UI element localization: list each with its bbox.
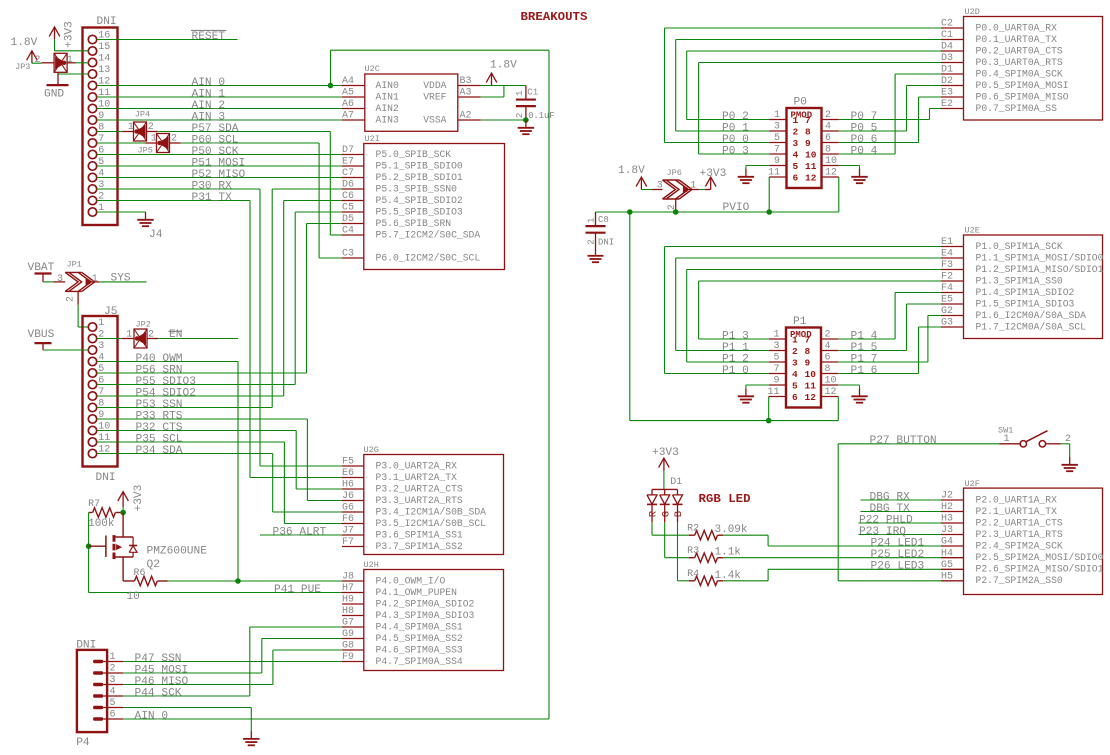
svg-text:P2.0_UART1A_RX: P2.0_UART1A_RX — [976, 494, 1058, 505]
svg-text:P46_MISO: P46_MISO — [135, 676, 189, 688]
svg-text:P25_LED2: P25_LED2 — [871, 549, 925, 561]
svg-text:P3.0_UART2A_RX: P3.0_UART2A_RX — [376, 460, 458, 471]
svg-text:AIN_3: AIN_3 — [192, 111, 226, 123]
net label P26_LED3 — [871, 561, 925, 573]
svg-text:D6: D6 — [342, 180, 354, 191]
wire P32_CTS — [97, 431, 342, 490]
svg-text:P0.1_UART0A_TX: P0.1_UART0A_TX — [976, 34, 1058, 45]
wire P0.12 to PVIO — [838, 177, 840, 212]
jumper JP5 — [138, 134, 181, 156]
wire +3V3 to J4.15 — [55, 39, 89, 50]
svg-text:2: 2 — [110, 664, 116, 675]
jumper JP3 — [15, 53, 75, 72]
svg-text:JP5: JP5 — [138, 145, 153, 155]
svg-text:DNI: DNI — [97, 16, 117, 28]
net label EN — [169, 329, 183, 341]
net label AIN_1 — [192, 88, 226, 100]
svg-text:1: 1 — [774, 110, 780, 121]
wire GND to J4.13 — [58, 73, 88, 75]
svg-text:P41_PUE: P41_PUE — [274, 584, 321, 596]
svg-text:JP2: JP2 — [136, 320, 151, 330]
svg-text:7: 7 — [805, 335, 811, 346]
svg-text:P36_ALRT: P36_ALRT — [273, 526, 327, 538]
svg-text:1: 1 — [586, 218, 596, 223]
svg-text:H7: H7 — [342, 583, 354, 594]
ground (P0.9) — [738, 169, 754, 183]
svg-text:P1.3_SPIM1A_SS0: P1.3_SPIM1A_SS0 — [976, 275, 1063, 286]
wire J4.1 to ground — [97, 211, 146, 213]
wire P33_RTS — [97, 419, 342, 501]
svg-text:P0.4_SPIM0A_SCK: P0.4_SPIM0A_SCK — [976, 68, 1063, 79]
wire P0.11 to PVIO — [768, 177, 770, 212]
svg-text:2: 2 — [148, 329, 154, 340]
wire P0_3 (U2D.D3 to P0.7) — [699, 63, 941, 155]
junction PVIO/JP6 — [673, 209, 679, 215]
svg-text:G2: G2 — [941, 306, 953, 317]
jumper JP2 — [122, 320, 158, 349]
wire P1_3 (U2E.F2 to P1.1) — [699, 281, 941, 339]
svg-text:P2.1_UART1A_TX: P2.1_UART1A_TX — [976, 506, 1058, 517]
net label P46_MISO — [135, 676, 189, 688]
svg-text:1: 1 — [515, 91, 525, 96]
svg-text:7: 7 — [773, 364, 779, 375]
net label DBG_TX — [870, 503, 911, 515]
svg-text:D4: D4 — [941, 42, 953, 53]
svg-text:P0_3: P0_3 — [722, 145, 749, 157]
wire P0_5 (U2D.D2 to P0.4) — [839, 86, 941, 132]
svg-text:P4.4_SPIM0A_SS1: P4.4_SPIM0A_SS1 — [376, 621, 463, 632]
svg-text:P53_SSN: P53_SSN — [136, 399, 183, 411]
wire AIN_1 — [97, 96, 342, 98]
jumper JP1 — [54, 260, 100, 305]
svg-text:3: 3 — [793, 138, 799, 149]
net label AIN_3 — [192, 111, 226, 123]
wire P30_RX to U2G.F5 — [97, 189, 342, 466]
ground (P4.5) — [243, 731, 259, 745]
connector J4 — [83, 16, 163, 241]
svg-text:10: 10 — [825, 376, 837, 387]
supply 1.8V (JP6) — [618, 165, 647, 190]
connector J5 — [83, 306, 118, 484]
wire PVIO down to P1 — [630, 212, 839, 421]
svg-text:P56_SRN: P56_SRN — [136, 364, 183, 376]
svg-text:3: 3 — [792, 358, 798, 369]
wire P0_7 (U2D.E2 to P0.2) — [839, 109, 941, 120]
svg-text:P0_1: P0_1 — [722, 122, 749, 134]
svg-text:VDDA: VDDA — [423, 80, 446, 91]
wire DBG_RX — [861, 499, 942, 501]
junction AIN_0 — [328, 83, 334, 89]
switch SW1 — [998, 425, 1071, 447]
wire D1.G to R3 — [665, 522, 689, 557]
net label P40_OWM — [136, 353, 183, 365]
svg-text:U2I: U2I — [365, 134, 380, 144]
svg-text:P4.5_SPIM0A_SS2: P4.5_SPIM0A_SS2 — [376, 633, 463, 644]
wire JP3.1 to J4.14 — [76, 62, 89, 64]
net label P31_TX — [192, 192, 233, 204]
svg-text:E5: E5 — [941, 295, 953, 306]
svg-text:A4: A4 — [342, 76, 354, 87]
resistor R6 10 — [123, 568, 167, 603]
svg-text:F4: F4 — [941, 283, 953, 294]
svg-text:9: 9 — [805, 358, 811, 369]
svg-text:P45_MOSI: P45_MOSI — [135, 664, 189, 676]
svg-text:P3.4_I2CM1A/S0B_SDA: P3.4_I2CM1A/S0B_SDA — [376, 506, 487, 517]
svg-text:4: 4 — [793, 150, 799, 161]
svg-text:P0_0: P0_0 — [722, 134, 749, 146]
wire P41_PUE left vertical — [89, 513, 342, 593]
net label P54_SDIO2 — [136, 387, 196, 399]
net label P44_SCK — [135, 687, 182, 699]
svg-text:P0_5: P0_5 — [851, 122, 878, 134]
wire P4.5 to ground — [123, 708, 251, 732]
wire P1_1 (U2E.E4 to P1.3) — [676, 258, 941, 351]
svg-text:P1_6: P1_6 — [851, 365, 878, 377]
svg-text:P2.5_SPIM2A_MOSI/SDIO0: P2.5_SPIM2A_MOSI/SDIO0 — [976, 552, 1104, 563]
svg-text:F6: F6 — [342, 514, 354, 525]
svg-text:VREF: VREF — [423, 91, 446, 102]
svg-text:C4: C4 — [342, 226, 354, 237]
IC U2F — [941, 479, 1104, 595]
svg-text:1.8V: 1.8V — [618, 165, 645, 177]
wire P1_2 (U2E.F3 to P1.5) — [687, 270, 941, 363]
svg-text:H6: H6 — [342, 480, 354, 491]
net label P57_SDA — [192, 123, 239, 135]
wire P50_SCK — [97, 154, 342, 156]
net label AIN_2 — [192, 100, 226, 112]
net label P33_RTS — [136, 410, 183, 422]
svg-text:E6: E6 — [342, 468, 354, 479]
wire P53_SSN — [97, 189, 342, 408]
svg-text:P5.3_SPIB_SSN0: P5.3_SPIB_SSN0 — [376, 183, 458, 194]
svg-text:2: 2 — [825, 110, 831, 121]
wire VBAT to JP1.3 — [43, 281, 54, 283]
svg-text:R7: R7 — [88, 499, 100, 510]
svg-text:E1: E1 — [941, 237, 953, 248]
svg-text:+3V3: +3V3 — [133, 485, 145, 512]
svg-text:P4.7_SPIM0A_SS4: P4.7_SPIM0A_SS4 — [376, 656, 463, 667]
wire P1.9 to ground — [746, 385, 769, 389]
svg-text:U2G: U2G — [364, 445, 379, 455]
net label P35_SCL — [136, 433, 183, 445]
wire P0.9 to ground — [746, 166, 769, 170]
svg-text:P0.2_UART0A_CTS: P0.2_UART0A_CTS — [976, 45, 1063, 56]
svg-text:H8: H8 — [342, 606, 354, 617]
wire P52_MISO — [97, 177, 342, 179]
svg-text:P3.7_SPIM1A_SS2: P3.7_SPIM1A_SS2 — [376, 541, 463, 552]
svg-text:P1_0: P1_0 — [722, 365, 749, 377]
wire P1_4 (U2E.F4 to P1.2) — [839, 293, 942, 340]
svg-text:U2C: U2C — [365, 64, 380, 74]
svg-text:P4.2_SPIM0A_SDIO2: P4.2_SPIM0A_SDIO2 — [376, 598, 475, 609]
svg-text:1.8V: 1.8V — [490, 60, 517, 72]
ground (C1) — [518, 120, 534, 134]
svg-text:E7: E7 — [342, 157, 354, 168]
junction C1/VSSA — [523, 117, 529, 123]
net label P24_LED1 — [871, 537, 925, 549]
wire SW1.2 to ground — [1061, 444, 1070, 457]
svg-text:9: 9 — [805, 138, 811, 149]
svg-text:RESET: RESET — [192, 31, 226, 43]
svg-text:P2.2_UART1A_CTS: P2.2_UART1A_CTS — [976, 517, 1063, 528]
svg-text:P0: P0 — [794, 97, 808, 109]
svg-text:H9: H9 — [342, 595, 354, 606]
ground (SW1) — [1062, 457, 1078, 471]
svg-text:AIN2: AIN2 — [376, 103, 399, 114]
svg-text:13: 13 — [98, 65, 110, 76]
svg-text:P4: P4 — [76, 737, 90, 749]
svg-text:P3.1_UART2A_TX: P3.1_UART2A_TX — [376, 472, 458, 483]
wire P0_1 (U2D.C1 to P0.3) — [676, 40, 941, 132]
svg-text:G: G — [660, 511, 672, 517]
svg-text:100k: 100k — [88, 518, 115, 530]
svg-text:C5: C5 — [342, 203, 354, 214]
svg-text:Q2: Q2 — [147, 559, 160, 571]
svg-text:6: 6 — [110, 710, 116, 721]
svg-text:AIN0: AIN0 — [376, 80, 399, 91]
svg-text:D2: D2 — [941, 76, 953, 87]
svg-text:P23_IRQ: P23_IRQ — [859, 526, 906, 538]
svg-text:11: 11 — [805, 381, 817, 392]
svg-text:5: 5 — [792, 381, 798, 392]
wire EN — [158, 338, 238, 340]
svg-text:R3: R3 — [687, 546, 699, 557]
svg-text:P1.2_SPIM1A_MISO/SDIO1: P1.2_SPIM1A_MISO/SDIO1 — [976, 264, 1104, 275]
svg-text:RGB LED: RGB LED — [699, 492, 751, 506]
svg-text:VSSA: VSSA — [423, 114, 446, 125]
wire P0_0 (U2D.C2 to P0.5) — [665, 28, 942, 143]
svg-text:P4.6_SPIM0A_SS3: P4.6_SPIM0A_SS3 — [376, 644, 463, 655]
svg-text:P35_SCL: P35_SCL — [136, 433, 183, 445]
wire P51_MOSI — [97, 165, 342, 167]
svg-text:1: 1 — [110, 652, 116, 663]
svg-text:P52_MISO: P52_MISO — [192, 169, 246, 181]
wire P36_ALRT — [260, 534, 342, 536]
net label P41_PUE — [274, 584, 321, 596]
resistor R2 3.09k — [687, 524, 748, 540]
wire P1_5 (U2E.E5 to P1.4) — [839, 304, 942, 351]
wire P56_SRN — [97, 224, 342, 374]
svg-text:P5.1_SPIB_SDIO0: P5.1_SPIB_SDIO0 — [376, 160, 463, 171]
svg-text:P0.0_UART0A_RX: P0.0_UART0A_RX — [976, 22, 1058, 33]
net label AIN_0 (P4) — [135, 710, 169, 722]
svg-text:4: 4 — [110, 687, 116, 698]
svg-text:DNI: DNI — [598, 237, 614, 247]
svg-text:DBG_RX: DBG_RX — [870, 491, 911, 503]
svg-text:3: 3 — [657, 181, 663, 192]
svg-text:VBUS: VBUS — [28, 329, 55, 341]
svg-text:P1.0_SPIM1A_SCK: P1.0_SPIM1A_SCK — [976, 241, 1063, 252]
svg-text:J2: J2 — [941, 491, 953, 502]
svg-text:2: 2 — [35, 55, 41, 66]
svg-text:D1: D1 — [670, 477, 682, 488]
wire P1_6 (U2E.G3 to P1.8) — [839, 327, 942, 374]
junction PVIO/P1.11 — [766, 418, 772, 424]
net label DBG_RX — [870, 491, 911, 503]
net label P32_CTS — [136, 422, 183, 434]
wire VBUS to J5.3 — [43, 349, 88, 351]
svg-text:3.09k: 3.09k — [715, 524, 748, 536]
svg-text:P2.4_SPIM2A_SCK: P2.4_SPIM2A_SCK — [976, 540, 1063, 551]
wire RESET — [97, 39, 238, 41]
wire VDDA/VREF to C1 — [481, 86, 526, 98]
junction gate tap — [86, 543, 92, 549]
IC U2D — [941, 7, 1103, 120]
svg-text:E3: E3 — [941, 88, 953, 99]
svg-text:AIN_0: AIN_0 — [135, 710, 169, 722]
wire AIN_0 long route to P4.6 — [123, 50, 549, 719]
svg-text:P2.6_SPIM2A_MISO/SDIO1: P2.6_SPIM2A_MISO/SDIO1 — [976, 564, 1104, 575]
net label P47_SSN — [135, 653, 182, 665]
ground (C8) — [588, 256, 604, 262]
wire DBG_TX — [861, 511, 942, 513]
svg-text:AIN_0: AIN_0 — [192, 77, 226, 89]
svg-text:1: 1 — [151, 134, 157, 145]
svg-text:J8: J8 — [342, 572, 354, 583]
IC U2E — [941, 226, 1104, 339]
svg-text:8: 8 — [805, 346, 811, 357]
svg-text:0.1uF: 0.1uF — [528, 111, 554, 121]
svg-text:J4: J4 — [149, 229, 163, 241]
net label P25_LED2 — [871, 549, 925, 561]
svg-text:A5: A5 — [342, 88, 354, 99]
svg-text:U2E: U2E — [965, 226, 980, 236]
svg-text:F7: F7 — [342, 537, 354, 548]
net label AIN_0 — [192, 77, 226, 89]
supply +3V3 (Q2) — [118, 485, 145, 513]
junction PVIO/C8 — [627, 209, 633, 215]
wire P1.10 to ground — [839, 385, 860, 389]
svg-text:P5.5_SPIB_SDIO3: P5.5_SPIB_SDIO3 — [376, 206, 463, 217]
svg-text:P51_MOSI: P51_MOSI — [192, 157, 246, 169]
wire JP1.2 to J5.1 — [78, 305, 88, 328]
svg-text:1: 1 — [792, 335, 798, 346]
net label P51_MOSI — [192, 157, 246, 169]
svg-text:11: 11 — [805, 161, 817, 172]
svg-text:6: 6 — [792, 392, 798, 403]
diode D1 RGB LED — [647, 477, 751, 522]
svg-text:15: 15 — [98, 42, 110, 53]
svg-text:3: 3 — [57, 274, 63, 285]
svg-text:AIN1: AIN1 — [376, 91, 399, 102]
wire P46_MISO to U2H.G8 — [123, 650, 342, 685]
svg-text:7: 7 — [774, 145, 780, 156]
connector P1 (PMOD) — [722, 316, 878, 408]
svg-text:7: 7 — [805, 115, 811, 126]
svg-text:P1_2: P1_2 — [722, 353, 749, 365]
IC U2H — [342, 560, 504, 671]
svg-text:3: 3 — [773, 341, 779, 352]
net label P27_BUTTON — [870, 435, 937, 447]
svg-text:G8: G8 — [342, 641, 354, 652]
supply +3V3 (JP6) — [699, 168, 726, 189]
svg-text:P0.3_UART0A_RTS: P0.3_UART0A_RTS — [976, 57, 1063, 68]
svg-text:12: 12 — [825, 387, 837, 398]
wire P54_SDIO2 — [97, 201, 342, 397]
wire AIN_0 from J4.12 to U2C.A4 — [97, 85, 342, 87]
svg-text:P0.7_SPIM0A_SS: P0.7_SPIM0A_SS — [976, 103, 1058, 114]
svg-text:P1.4_SPIM1A_SDIO2: P1.4_SPIM1A_SDIO2 — [976, 287, 1075, 298]
svg-text:P1_4: P1_4 — [851, 330, 878, 342]
svg-text:P0_7: P0_7 — [851, 111, 878, 123]
svg-text:P32_CTS: P32_CTS — [136, 422, 183, 434]
svg-text:2: 2 — [171, 134, 177, 145]
svg-text:G9: G9 — [342, 629, 354, 640]
svg-text:P1_3: P1_3 — [722, 330, 749, 342]
svg-text:H4: H4 — [941, 548, 953, 559]
svg-text:1: 1 — [92, 274, 98, 285]
net label P60_SCL — [192, 134, 239, 146]
svg-text:G7: G7 — [342, 618, 354, 629]
svg-text:P55_SDIO3: P55_SDIO3 — [136, 376, 196, 388]
wire R3 to U2F.H4 (P25_LED2) — [723, 557, 941, 559]
wire P47_SSN — [123, 661, 342, 663]
capacitor C1 0.1uF — [515, 86, 555, 121]
wire AIN_2 — [97, 108, 342, 110]
svg-text:2: 2 — [148, 122, 154, 133]
wire P27_BUTTON — [838, 444, 999, 581]
svg-text:P1_7: P1_7 — [851, 353, 878, 365]
wire VSSA — [481, 119, 526, 121]
svg-text:P2.3_UART1A_RTS: P2.3_UART1A_RTS — [976, 529, 1063, 540]
svg-text:P3.5_I2CM1A/S0B_SCL: P3.5_I2CM1A/S0B_SCL — [376, 518, 487, 529]
svg-text:P4.3_SPIM0A_SDIO3: P4.3_SPIM0A_SDIO3 — [376, 610, 475, 621]
svg-text:11: 11 — [767, 387, 779, 398]
wire J4.8 to JP4.1 — [97, 131, 123, 133]
svg-text:2: 2 — [586, 239, 596, 244]
svg-text:1: 1 — [1004, 434, 1010, 445]
svg-text:GND: GND — [44, 89, 64, 101]
svg-text:P1_5: P1_5 — [851, 342, 878, 354]
supply VBUS — [28, 329, 55, 350]
wire P1_0 (U2E.E1 to P1.7) — [665, 247, 942, 374]
svg-text:J7: J7 — [342, 526, 354, 537]
svg-text:SYS: SYS — [111, 272, 131, 284]
wire P0.10 to ground — [839, 166, 860, 170]
net label P50_SCK — [192, 146, 239, 158]
capacitor C8 DNI — [586, 212, 615, 255]
jumper JP6 — [652, 168, 699, 212]
jumper JP4 — [122, 110, 158, 141]
svg-text:P1.5_SPIM1A_SDIO3: P1.5_SPIM1A_SDIO3 — [976, 298, 1075, 309]
svg-text:F2: F2 — [941, 272, 953, 283]
svg-text:F5: F5 — [342, 457, 354, 468]
svg-text:F9: F9 — [342, 652, 354, 663]
wire 1.8V to JP3.2 — [32, 62, 42, 64]
wire J5.2 to JP2.1 — [97, 338, 122, 340]
svg-text:1: 1 — [67, 55, 73, 66]
IC U2G — [342, 445, 504, 555]
svg-text:J5: J5 — [104, 306, 117, 318]
svg-text:P50_SCK: P50_SCK — [192, 146, 239, 158]
svg-text:B: B — [673, 511, 685, 517]
svg-text:P47_SSN: P47_SSN — [135, 653, 182, 665]
svg-text:1.4k: 1.4k — [715, 570, 742, 582]
svg-text:U2H: U2H — [364, 560, 379, 570]
svg-text:C7: C7 — [342, 168, 354, 179]
svg-text:+3V3: +3V3 — [700, 168, 727, 180]
connector P4 — [76, 640, 123, 750]
svg-text:P33_RTS: P33_RTS — [136, 410, 183, 422]
svg-text:P2.7_SPIM2A_SS0: P2.7_SPIM2A_SS0 — [976, 575, 1063, 586]
svg-text:1.8V: 1.8V — [11, 37, 38, 49]
net label P36_ALRT — [273, 526, 327, 538]
svg-text:U2D: U2D — [965, 7, 980, 17]
net label P45_MOSI — [135, 664, 189, 676]
svg-text:PMZ600UNE: PMZ600UNE — [147, 546, 208, 558]
svg-text:P57_SDA: P57_SDA — [192, 123, 239, 135]
svg-text:R4: R4 — [687, 569, 699, 580]
